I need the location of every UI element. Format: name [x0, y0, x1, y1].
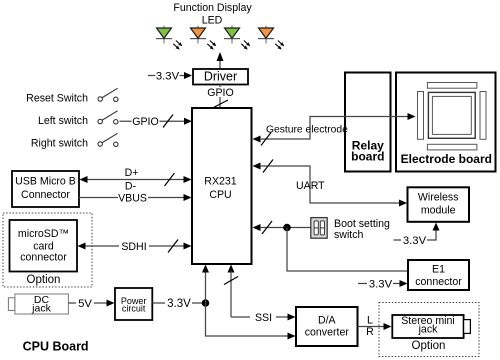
- electrode pattern bottom bar: [427, 144, 477, 150]
- option box stereo jack: [379, 303, 479, 357]
- wire UART CPU to wireless module: [253, 160, 408, 207]
- svg-text:3.3V: 3.3V: [403, 235, 427, 247]
- connector J2 microSD card: [10, 220, 78, 272]
- wire 3.3V power rail: [152, 298, 205, 311]
- board Relay board: [345, 73, 391, 172]
- option box microSD: [3, 213, 92, 287]
- svg-text:GPIO: GPIO: [132, 116, 159, 128]
- svg-text:3.3V: 3.3V: [167, 298, 191, 310]
- wire VBUS USB to CPU: [79, 192, 192, 204]
- svg-text:RX231: RX231: [204, 176, 236, 188]
- LED D3 (green): [224, 26, 250, 50]
- svg-text:UART: UART: [296, 180, 325, 192]
- switch SW2 Left switch: [38, 111, 118, 127]
- electrode pattern center square: [428, 92, 475, 138]
- svg-text:L: L: [367, 314, 373, 326]
- svg-text:Right switch: Right switch: [31, 138, 88, 150]
- svg-text:Option: Option: [27, 274, 61, 286]
- svg-text:D/A: D/A: [318, 314, 337, 326]
- wire 3.3V rail up into CPU: [202, 265, 209, 304]
- svg-text:LED: LED: [202, 15, 223, 27]
- svg-text:connector: connector: [20, 252, 67, 264]
- svg-text:jack: jack: [31, 303, 51, 315]
- svg-text:Left switch: Left switch: [38, 115, 88, 127]
- electrode pattern right bar: [480, 92, 486, 140]
- svg-text:Electrode board: Electrode board: [401, 152, 492, 166]
- svg-text:Option: Option: [412, 340, 446, 352]
- wire 5V DC jack to power circuit: [68, 298, 114, 310]
- svg-text:R: R: [366, 326, 374, 338]
- svg-text:VBUS: VBUS: [118, 192, 147, 204]
- svg-text:Wireless: Wireless: [418, 192, 459, 204]
- svg-text:circuit: circuit: [122, 303, 146, 313]
- D/A converter U4: [296, 307, 358, 346]
- wire Gesture electrode CPU to electrode board: [253, 113, 416, 146]
- connector J3 DC jack: [8, 294, 68, 315]
- svg-text:module: module: [421, 205, 456, 217]
- wire L R D/A to stereo jack: [358, 314, 392, 338]
- electrode pattern top bar: [427, 83, 477, 89]
- svg-text:D-: D-: [125, 181, 137, 193]
- svg-text:SDHI: SDHI: [121, 241, 146, 253]
- connector J5 E1: [408, 260, 469, 290]
- svg-text:board: board: [351, 149, 384, 163]
- svg-text:converter: converter: [305, 326, 350, 338]
- wire 3.3V rail down to D/A converter: [206, 303, 296, 340]
- svg-text:3.3V: 3.3V: [156, 71, 180, 83]
- switch SW4 boot setting (DIP): [311, 218, 327, 239]
- module Wireless: [408, 187, 470, 222]
- junction node 3.3V: [202, 299, 210, 307]
- svg-text:E1: E1: [432, 264, 445, 276]
- junction node boot: [283, 224, 291, 232]
- svg-text:Function Display: Function Display: [173, 2, 252, 14]
- board Electrode board: [396, 73, 496, 172]
- svg-text:D+: D+: [125, 167, 139, 179]
- wire Driver to LEDs (up arrow): [217, 52, 224, 69]
- svg-text:switch: switch: [334, 229, 364, 241]
- LED D1 (green): [156, 26, 182, 50]
- wire GPIO Driver-CPU with bus slash: [205, 85, 236, 109]
- svg-text:GPIO: GPIO: [207, 87, 234, 99]
- svg-text:jack: jack: [418, 324, 439, 336]
- svg-text:CPU: CPU: [209, 189, 231, 201]
- wire SSI CPU to D/A converter: [224, 265, 296, 324]
- wire GPIO switches to CPU: [120, 115, 193, 129]
- svg-text:Driver: Driver: [204, 70, 237, 84]
- label Boot setting switch: [334, 218, 390, 241]
- LED D2 (orange): [190, 26, 216, 50]
- electrode pattern left bar: [418, 92, 424, 140]
- power circuit U3: [115, 288, 152, 320]
- svg-text:Reset Switch: Reset Switch: [26, 93, 88, 105]
- svg-text:microSD™: microSD™: [18, 228, 69, 240]
- wire 3.3V to wireless module: [394, 223, 440, 247]
- svg-text:5V: 5V: [78, 298, 92, 310]
- CPU U1 RX231: [192, 108, 252, 264]
- wire D+ D- USB to CPU: [80, 167, 192, 193]
- switch SW1 Reset Switch: [26, 88, 118, 104]
- connector J1 USB Micro B: [12, 171, 79, 207]
- svg-text:CPU Board: CPU Board: [23, 340, 89, 354]
- wire boot node to E1 connector: [287, 228, 408, 272]
- LED D4 (orange): [258, 26, 284, 50]
- svg-text:3.3V: 3.3V: [369, 278, 393, 290]
- wire 3.3V into Driver: [148, 70, 192, 83]
- driver U2: [193, 69, 248, 85]
- switch SW3 Right switch: [31, 133, 118, 149]
- wire 3.3V to E1 connector: [358, 278, 408, 290]
- svg-text:connector: connector: [415, 276, 462, 288]
- wire boot setting CPU to switch: [253, 221, 311, 234]
- wire SDHI microSD to CPU: [78, 240, 192, 253]
- connector J4 stereo mini jack: [392, 315, 470, 338]
- svg-text:Gesture electrode: Gesture electrode: [266, 124, 348, 135]
- svg-text:USB Micro B: USB Micro B: [15, 176, 76, 188]
- label Function Display LED: [173, 2, 252, 27]
- svg-text:Connector: Connector: [21, 189, 70, 201]
- svg-text:SSI: SSI: [255, 312, 272, 324]
